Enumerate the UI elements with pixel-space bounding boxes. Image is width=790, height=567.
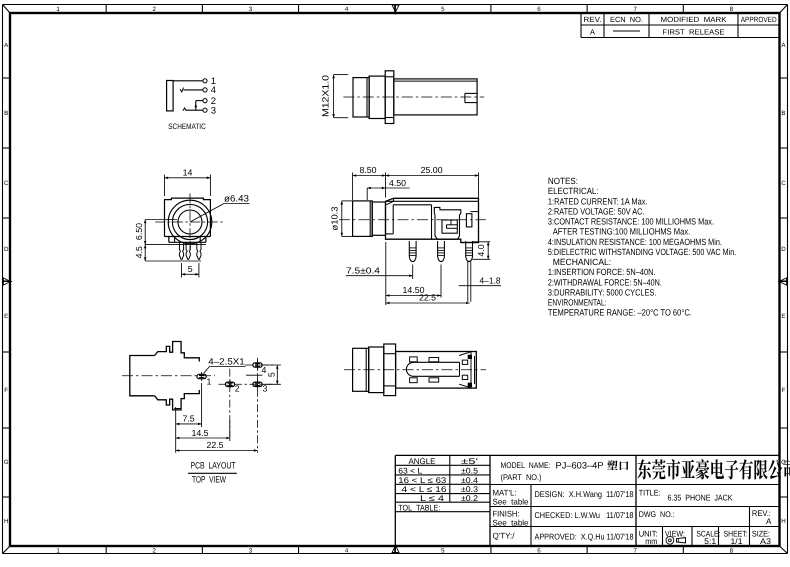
svg-text:5: 5 (188, 264, 193, 274)
svg-text:TEMPERATURE RANGE: –20°C TO 60: TEMPERATURE RANGE: –20°C TO 60°C. (548, 308, 692, 318)
svg-text:A3: A3 (760, 537, 771, 546)
svg-text:2: 2 (235, 384, 240, 394)
svg-text:SCHEMATIC: SCHEMATIC (168, 122, 206, 131)
svg-text:MECHANICAL:: MECHANICAL: (553, 257, 612, 267)
svg-text:±0.2: ±0.2 (461, 494, 478, 503)
svg-text:1: 1 (56, 6, 60, 13)
svg-text:B: B (781, 110, 785, 117)
svg-text:1/1: 1/1 (731, 537, 743, 546)
svg-text:4–1.8: 4–1.8 (480, 275, 501, 285)
svg-text:ENVIRONMENTAL:: ENVIRONMENTAL: (548, 298, 607, 308)
svg-text:C: C (4, 180, 9, 187)
svg-text:5:1: 5:1 (704, 537, 716, 546)
svg-text:63 < L: 63 < L (398, 466, 422, 475)
svg-text:REV.: REV. (584, 15, 602, 24)
svg-text:MAT'L:: MAT'L: (493, 488, 517, 497)
svg-text:2: 2 (153, 6, 157, 13)
svg-text:A: A (766, 517, 772, 526)
svg-text:2:RATED VOLTAGE: 50V AC.: 2:RATED VOLTAGE: 50V AC. (548, 206, 645, 216)
svg-text:MODEL NAME:: MODEL NAME: (501, 461, 551, 470)
svg-text:5: 5 (266, 372, 276, 377)
svg-text:4:INSULATION RESISTANCE: 100 M: 4:INSULATION RESISTANCE: 100 MEGAOHMS Mi… (548, 237, 722, 247)
svg-text:E: E (781, 313, 785, 320)
svg-text:F: F (4, 387, 8, 394)
svg-text:FIRST RELEASE: FIRST RELEASE (663, 28, 725, 37)
svg-text:DESIGN: X.H.Wang 11/07'18: DESIGN: X.H.Wang 11/07'18 (535, 489, 634, 499)
svg-text:22.5: 22.5 (419, 293, 436, 303)
svg-text:14: 14 (183, 167, 193, 177)
svg-text:MODIFIED MARK: MODIFIED MARK (661, 15, 727, 24)
svg-text:G: G (4, 459, 9, 466)
svg-text:AFTER TESTING:100 MILLIOHMS Ma: AFTER TESTING:100 MILLIOHMS Max. (553, 227, 691, 237)
svg-text:1: 1 (56, 547, 60, 554)
svg-text:E: E (4, 313, 8, 320)
svg-text:DWG NO.:: DWG NO.: (639, 510, 675, 519)
svg-text:5:DIELECTRIC WITHSTANDING VOLT: 5:DIELECTRIC WITHSTANDING VOLTAGE: 500 V… (548, 247, 736, 257)
svg-text:16 < L ≤ 63: 16 < L ≤ 63 (398, 476, 447, 485)
svg-text:D: D (781, 246, 786, 253)
svg-text:7.5±0.4: 7.5±0.4 (346, 265, 380, 275)
svg-text:3: 3 (263, 384, 268, 394)
svg-text:1: 1 (207, 377, 212, 387)
svg-text:5: 5 (441, 547, 445, 554)
svg-text:3:DURRABILITY: 5000 CYCLES.: 3:DURRABILITY: 5000 CYCLES. (548, 287, 657, 297)
svg-text:F: F (782, 387, 786, 394)
svg-text:4.5: 4.5 (134, 246, 144, 258)
svg-text:3:CONTACT RESISTANCE: 100 MILL: 3:CONTACT RESISTANCE: 100 MILLIOHMS Max. (548, 217, 714, 227)
svg-text:2:WITHDRAWAL FORCE: 5N–40N.: 2:WITHDRAWAL FORCE: 5N–40N. (548, 277, 662, 287)
svg-text:4.0: 4.0 (476, 244, 486, 256)
svg-text:±5': ±5' (461, 457, 479, 466)
svg-text:6.35 PHONE JACK: 6.35 PHONE JACK (668, 493, 733, 503)
svg-text:D: D (4, 246, 9, 253)
svg-text:CHECKED: L.W.Wu 11/07'18: CHECKED: L.W.Wu 11/07'18 (535, 510, 634, 520)
svg-text:4–2.5X1: 4–2.5X1 (208, 357, 245, 367)
svg-text:APPROVED: APPROVED (741, 15, 777, 24)
svg-text:7: 7 (633, 547, 637, 554)
svg-text:TOP VIEW: TOP VIEW (192, 475, 226, 485)
svg-text:6: 6 (537, 547, 541, 554)
svg-text:ø10.3: ø10.3 (329, 206, 339, 230)
svg-text:22.5: 22.5 (206, 440, 223, 450)
svg-text:3: 3 (249, 547, 253, 554)
svg-text:4.50: 4.50 (389, 178, 406, 188)
svg-text:PJ–603–4P: PJ–603–4P (556, 461, 604, 471)
svg-text:±0.4: ±0.4 (461, 476, 478, 485)
svg-text:(PART NO.): (PART NO.) (501, 473, 542, 482)
svg-text:7.5: 7.5 (182, 413, 194, 423)
svg-text:ELECTRICAL:: ELECTRICAL: (548, 186, 599, 196)
svg-text:8: 8 (730, 547, 734, 554)
svg-text:mm: mm (645, 537, 657, 546)
svg-text:M12X1.0: M12X1.0 (321, 75, 331, 117)
svg-text:3: 3 (211, 106, 216, 117)
svg-text:ANGLE: ANGLE (409, 457, 437, 466)
svg-text:5: 5 (441, 6, 445, 13)
svg-text:NOTES:: NOTES: (548, 176, 578, 186)
svg-text:PCB LAYOUT: PCB LAYOUT (191, 461, 236, 471)
svg-text:See table: See table (493, 497, 529, 506)
svg-text:B: B (4, 110, 8, 117)
svg-text:FINISH:: FINISH: (493, 509, 520, 518)
svg-text:25.00: 25.00 (421, 165, 443, 175)
svg-text:H: H (781, 518, 785, 525)
svg-text:L ≤ 4: L ≤ 4 (420, 494, 445, 503)
svg-text:TITLE:: TITLE: (639, 489, 661, 498)
svg-text:See table: See table (493, 518, 529, 527)
svg-text:4: 4 (345, 6, 349, 13)
svg-text:TOL TABLE:: TOL TABLE: (398, 503, 440, 512)
svg-text:8.50: 8.50 (359, 165, 376, 175)
svg-text:±0.5: ±0.5 (461, 466, 478, 475)
svg-text:7: 7 (633, 6, 637, 13)
svg-text:H: H (4, 518, 8, 525)
svg-text:Q'TY:/: Q'TY:/ (493, 531, 516, 540)
svg-text:6: 6 (537, 6, 541, 13)
svg-text:14.5: 14.5 (191, 428, 208, 438)
svg-text:G: G (781, 459, 786, 466)
svg-text:8: 8 (730, 6, 734, 13)
svg-text:ø6.43: ø6.43 (224, 194, 249, 204)
svg-text:A: A (590, 28, 595, 37)
svg-text:ECN NO.: ECN NO. (610, 15, 643, 24)
svg-text:2: 2 (153, 547, 157, 554)
svg-text:4: 4 (211, 85, 216, 96)
svg-text:4: 4 (345, 547, 349, 554)
svg-text:3: 3 (249, 6, 253, 13)
svg-text:1:INSERTION FORCE: 5N–40N.: 1:INSERTION FORCE: 5N–40N. (548, 267, 656, 277)
svg-text:C: C (781, 180, 786, 187)
svg-text:6.50: 6.50 (134, 223, 144, 240)
svg-text:APPROVED: X.Q.Hu 11/07'18: APPROVED: X.Q.Hu 11/07'18 (535, 531, 634, 541)
svg-text:1:RATED CURRENT: 1A Max.: 1:RATED CURRENT: 1A Max. (548, 196, 648, 206)
